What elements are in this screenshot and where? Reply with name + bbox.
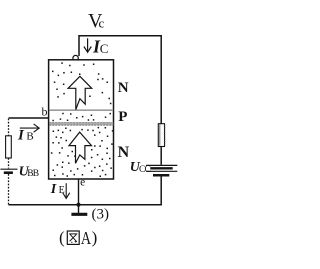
- svg-text:B: B: [26, 130, 33, 142]
- current arrow IB: [20, 124, 39, 132]
- dopant dots N2 region: [51, 128, 113, 177]
- junction node dot: [76, 203, 80, 207]
- svg-text:e: e: [80, 176, 85, 188]
- svg-text:N: N: [118, 144, 130, 161]
- wire bottom rail: [9, 204, 162, 206]
- svg-text:CC: CC: [139, 165, 151, 175]
- svg-text:(: (: [59, 228, 65, 247]
- svg-text:A: A: [81, 228, 91, 248]
- wire emitter lead: [78, 179, 80, 205]
- transistor body box: [49, 60, 114, 179]
- junction line N/P (gray): [49, 109, 113, 111]
- junction band P/N (gray): [49, 122, 113, 125]
- battery UCC plate long 1: [146, 164, 177, 166]
- svg-text:b: b: [42, 104, 48, 118]
- wire base lead: [9, 117, 49, 119]
- battery UCC plate short 2: [153, 174, 169, 177]
- svg-text:N: N: [118, 80, 129, 96]
- svg-text:BB: BB: [27, 169, 39, 179]
- wire right branch upper segment: [160, 35, 162, 124]
- wire left branch (dotted): [8, 119, 10, 136]
- dopant dots P strip: [52, 114, 111, 121]
- svg-text:(3): (3): [92, 206, 110, 222]
- svg-text:c: c: [99, 16, 105, 31]
- svg-text:I: I: [17, 127, 25, 143]
- svg-text:): ): [92, 228, 98, 247]
- dopant dots N1 region: [52, 63, 111, 103]
- ground: [78, 205, 80, 213]
- svg-text:C: C: [100, 41, 109, 56]
- current arrow IE: [63, 183, 70, 198]
- resistor RB: [6, 136, 12, 158]
- electron flow arrow lower (hollow): [69, 132, 92, 163]
- svg-text:E: E: [59, 185, 65, 196]
- wire resistor to battery (dotted): [8, 158, 10, 168]
- svg-text:I: I: [50, 182, 57, 197]
- battery UCC plate long 2: [146, 170, 177, 172]
- battery UBB plate long: [0, 168, 17, 170]
- wire resistor to battery: [160, 147, 162, 165]
- current arrow IC: [84, 38, 91, 52]
- wire battery to bottom rail: [160, 177, 162, 205]
- wire top rail from collector drop to right branch: [79, 36, 162, 56]
- svg-text:P: P: [118, 109, 127, 125]
- battery UCC plate short 1: [150, 167, 172, 169]
- electron flow arrow upper (hollow): [68, 76, 92, 109]
- battery UBB plate short: [4, 171, 13, 174]
- terminal c circle: [73, 55, 78, 60]
- wire battery to bottom rail (dotted): [8, 174, 10, 205]
- resistor RC: [158, 124, 164, 147]
